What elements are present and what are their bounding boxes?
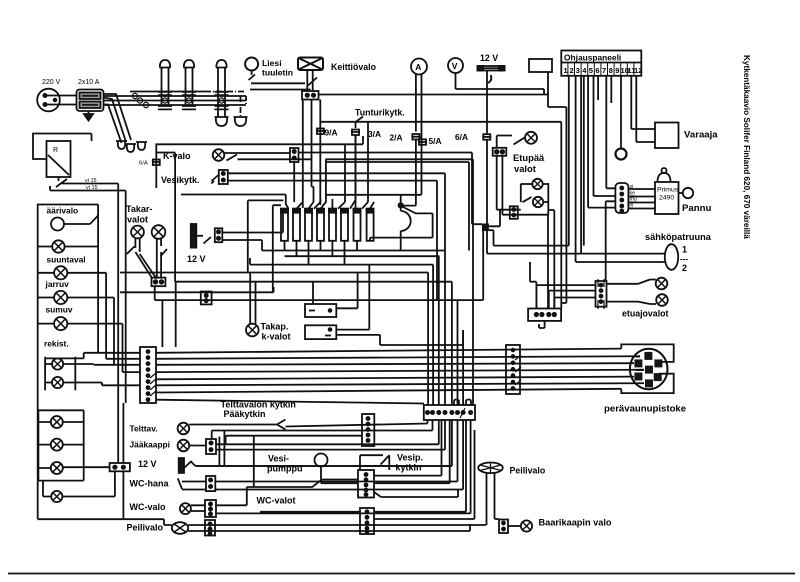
connector strip etuajovalot vertical [596,279,607,309]
wire mu from etuajovalot strip [606,201,616,281]
switch wc-hana [178,478,182,489]
connector strip bottom hub [424,405,475,420]
wire takar block down [154,286,156,300]
label R [53,147,58,154]
label WC-valot [257,496,296,506]
heater element ellipse [665,244,678,270]
lamp K-valo [213,149,225,161]
lamp takar A [131,226,144,239]
switch battery [204,237,212,244]
label WC-hana [130,479,170,489]
label Takar-valot [126,204,152,225]
mains cable bus horizontal [104,92,246,106]
svg-text:9: 9 [615,66,619,75]
connector bottom strip [360,508,374,534]
wire etupaa connector down2 [501,156,503,215]
wire fuse2 stem [296,241,298,256]
wire panel w10 to ring terminal [620,76,622,149]
wire panel w12 to Varaaja [636,76,655,142]
bus b7 [156,389,621,393]
connector jaakaappi 2pin [206,439,216,454]
wire sahko 1 from 12V line [487,140,665,254]
label 2x10 A [78,79,100,86]
label 6/A [455,132,468,142]
svg-text:---: --- [680,255,688,264]
wire fan feeds into fuse tops [297,122,422,209]
switch on K-valo wire [227,155,238,161]
connector baarikaappi [499,520,508,534]
wire panel w5 vi [588,76,615,208]
fuse 6A on 12V wire [482,134,491,140]
wire Vesikytk lower right [228,181,437,300]
label Telttav [130,424,158,434]
label 12 V top [480,53,498,63]
wire takar A stems [135,239,139,252]
label Varaaja [684,130,718,141]
wheel peilivalo symbol [478,463,503,474]
wire hub pin1 down to telttav [286,420,428,427]
wire hub verticals above [428,251,463,406]
wire wc left stub [43,481,115,497]
label rekist [44,339,69,349]
bus b1 [156,349,621,353]
wire rail right x98 [97,205,99,353]
trailer socket circle [630,349,668,390]
connector strip etuajovalot horizontal [528,309,561,321]
connector battery 2pin [215,228,223,242]
label 3/A [368,129,381,139]
wire vi15 upper to harness [62,183,118,185]
svg-text:Etupää: Etupää [513,152,545,163]
wire bottom strip row2 [374,430,475,519]
svg-text:2: 2 [570,66,574,75]
svg-text:Keittiövalo: Keittiövalo [331,62,377,72]
connector etupaa 2pin [493,148,507,156]
lamp suuntaval [52,240,64,252]
switch etupaa top [514,137,526,144]
svg-text:jarruv: jarruv [45,279,70,289]
svg-text:V: V [452,61,458,71]
label 5/A [429,136,442,146]
label Takap k-valot [261,322,291,342]
labels si ke mu vi [630,184,637,209]
bus b8 [156,400,424,404]
label Liesi tuuletin [262,58,293,78]
switch paakytkin [189,420,285,430]
relay R box [47,141,71,177]
connector K-valo 2pin [290,148,299,162]
wire jarruv stubs [38,273,106,359]
svg-text:pumppu: pumppu [267,464,303,474]
wire rail to peilivalo [38,481,124,520]
wire relay2 right top [336,265,369,330]
wire mid strip diag down [374,490,458,498]
battery 12V bar symbol [478,66,505,71]
lamp takar B [152,225,166,239]
svg-text:Vesikytk.: Vesikytk. [161,175,200,185]
terminal numbers 1-12 [568,63,634,75]
lamp 12v left [51,462,63,474]
trailer socket plate [621,344,673,393]
wire ammeter stems [416,74,422,195]
connector vesip mid strip [358,470,374,498]
wire voltmeter stem [456,73,545,95]
thermostat coil symbol [401,208,411,251]
wire fuse4 stem [320,241,322,251]
wire K-valo connector right [299,153,482,225]
label Vesi-pumppu [267,454,303,474]
wire to etuajovalot lamp2 [607,302,657,304]
wire 12v left stub to block [38,466,109,469]
svg-text:tuuletin: tuuletin [262,68,293,78]
bus y272 [120,272,428,274]
lamp etuajovalot 2 [656,294,668,306]
wire hub pin5 12v row [196,420,452,466]
svg-text:Pannu: Pannu [682,203,711,214]
wire etuajo feed 2 [549,291,596,309]
wire panel w2 [576,76,665,262]
svg-text:kytkin: kytkin [396,463,422,473]
ring terminal [616,149,627,160]
wire panel w4 mu [583,76,585,246]
lamp holder sockets x3 [116,141,147,152]
wire hub pin3 jaakaappi block [216,420,439,444]
fuse F220 block [77,90,104,112]
trailer socket pins [634,352,662,388]
box lamp group lower left [38,410,83,480]
wire junction up [400,195,402,203]
wire jaakaappi block top up [211,431,213,440]
switch takar A [127,247,135,255]
wire mid strip right r1 [374,420,442,476]
svg-text:Pääkytkin: Pääkytkin [224,409,266,419]
connector block left 2pin [110,463,130,471]
wire 3A down [355,135,357,208]
svg-text:etuajovalot: etuajovalot [622,309,669,319]
wire box feed left vertical [248,200,284,272]
battery 12V mid bar [191,224,197,248]
lamp telttav left [51,416,63,428]
label vi 15 upper [85,178,97,184]
wire wc-valo to block [191,505,205,511]
border bottom line [8,573,795,575]
wire etupaa top lamp [497,136,512,149]
svg-text:2x10 A: 2x10 A [78,79,100,86]
etupaa lower lamps assembly [502,183,548,215]
label Pannu [682,203,711,214]
label sahkopatruuna [645,232,712,242]
bus y250 [222,240,445,251]
svg-text:2: 2 [682,263,687,273]
svg-text:12: 12 [634,66,642,75]
svg-text:Peilivalo: Peilivalo [510,466,546,476]
wire fuse6 stem [344,241,346,265]
wire stems below block X1 [303,100,312,209]
label A [415,62,421,72]
wire peilivalo row second [188,524,470,531]
bus y300 [155,299,484,301]
label 12 V mid [187,254,206,264]
switch Vesikytk [211,175,219,184]
label sumuv [46,305,73,315]
socket dome S4 inverted [234,117,248,126]
switch vesip kytkin [360,455,389,470]
wire panel w6 ke [594,76,616,196]
svg-text:3: 3 [576,66,580,75]
svg-text:Primus: Primus [657,187,679,194]
label 12 V bottom [138,459,157,469]
svg-text:Kytkentäkaavio Solifer Finland: Kytkentäkaavio Solifer Finland 620, 670 … [742,55,751,239]
box K-valo left edge [156,136,363,188]
wire hub pin6 wc-hana [215,420,457,482]
lamp rekist top [54,317,67,330]
svg-text:3/A: 3/A [368,129,381,139]
wire hub pin4 jaakaappi low [216,420,445,450]
wire aarivalo rail down [37,220,39,480]
connector block mid [201,292,212,305]
lamp baarikaapin valo [521,520,532,531]
label Primus 2490 [657,187,679,202]
wire ladder links to strip [102,359,140,386]
wire 12v row [196,431,452,467]
svg-text:Baarikaapin valo: Baarikaapin valo [539,518,612,528]
bus y256 [285,255,440,257]
lamp jarruv [54,266,67,279]
connector takar block [152,278,166,287]
svg-text:2/A: 2/A [390,133,403,143]
wire hub hook n2 [466,400,471,406]
fuse 3A [351,130,360,136]
lamp rekist pair 2 [52,377,63,388]
wire etupaa feed down x548 [547,215,549,309]
wire panel w8 si [606,76,615,189]
terminal block X1 [302,91,319,100]
wire aarivalo right [64,216,98,225]
svg-text:6: 6 [595,66,599,75]
wire K-valo to connector [224,152,290,154]
ammeter U-A [411,59,427,75]
wire K-valo lower [238,159,474,405]
box rekist pair [45,357,75,391]
wire etupaa feed to junction b [489,230,494,245]
connector Vesikytk 2pin [219,170,228,184]
socket dome S3 inverted [215,117,229,126]
label etuajovalot [622,309,669,319]
wire panel w3 [580,76,582,254]
fuse 6A on left edge [152,160,161,166]
wire wheel stem [487,473,500,522]
svg-text:A: A [415,62,421,72]
fuse bank 8 fuses [281,209,374,241]
svg-text:7: 7 [602,66,606,75]
connector wc-valo [205,500,216,517]
wire panel w11 to Varaaja [631,76,655,129]
svg-text:Peilivalo: Peilivalo [127,523,164,533]
bus b4 [156,370,644,372]
label Baarikaapin valo [539,518,612,528]
wire box edge vertical x320 [319,100,321,206]
wire panel feeds down to etuajo [561,107,566,309]
svg-text:6/A: 6/A [455,132,468,142]
battery 12V bottom bar [179,458,196,473]
wire box feed left vertical 2 [273,205,281,292]
wire jaakaappi to block [189,445,206,447]
wire suuntaval stubs [38,246,98,248]
wire takap lamp stems [250,273,255,324]
wire Keittiovalo stems [307,70,312,91]
svg-text:Takar-: Takar- [126,204,152,214]
svg-text:Telttav.: Telttav. [130,424,158,434]
svg-text:220 V: 220 V [42,79,61,86]
label Etupaa valot [513,152,545,174]
box Varaaja [655,123,679,149]
label Vesikytk [161,175,200,185]
label Peilivalo bottom left [127,523,164,533]
lamp Takap k-valot [246,324,259,337]
svg-text:valot: valot [514,163,536,174]
wire peilivalo row long [188,524,486,526]
wire long vertical vi15a [117,184,119,464]
ground arrow [84,111,93,121]
lamp jaakaappi [178,440,190,452]
wire 12V stem [486,71,488,135]
wire ammeter left stem to junction [402,140,416,206]
wire wc-hana lower [215,420,463,490]
switch on Keittiovalo stem [308,78,317,86]
pump motor circle [315,454,328,467]
connector small below etupaa [510,206,518,219]
lamp etupaa lower1 [532,179,542,189]
label 220 V [42,79,61,86]
svg-text:12 V: 12 V [187,254,206,264]
lamp wc left [51,491,62,502]
wire bundle diagonal to lamp holders [104,94,132,143]
wire takar B stems [157,239,161,279]
svg-text:R: R [53,147,58,154]
pole tower T2 [182,60,196,109]
wire junction down to bus300 [482,231,484,300]
svg-text:sähköpatruuna: sähköpatruuna [645,232,712,242]
label aarivalo [47,206,79,216]
svg-text:12 V: 12 V [480,53,498,63]
label Ohjauspaneeli [564,53,621,63]
wire relay2 right bottom [336,335,380,345]
node junction dot [399,203,403,207]
svg-text:6/A: 6/A [139,161,148,167]
svg-text:Ohjauspaneeli: Ohjauspaneeli [564,53,621,63]
switch Tunturikytk [356,117,364,129]
wire box left edge x175 [156,153,175,282]
label Peilivalo right [510,466,546,476]
wire 12V aux battery feed [222,208,283,233]
wire vi15 lower to harness [50,186,126,191]
wire from K-valo connector down [293,162,295,202]
relay R enclosure [33,134,92,160]
boiler Pannu Primus 2490 [655,168,693,214]
wire junction diagonal [370,207,433,241]
svg-text:Jääkaappi: Jääkaappi [130,440,171,450]
wire rekist stubs [38,324,123,373]
wire fuse7 stem [356,241,358,251]
label WC-valo [130,502,167,512]
label 6/A small [139,161,148,167]
wire rail steps to strip [84,353,140,365]
connector strip mid vertical [506,345,521,394]
junction box black splice [482,224,489,232]
wire strip feeds from above [162,282,175,347]
svg-text:8: 8 [609,66,613,75]
svg-text:Telttavalon kytkin: Telttavalon kytkin [221,400,296,410]
svg-text:Varaaja: Varaaja [684,130,718,141]
svg-text:suuntaval: suuntaval [47,255,86,265]
wire relay1 right [336,273,357,309]
svg-text:rekist.: rekist. [44,339,69,349]
label peravaunupistoke [604,404,686,415]
wire relay1 top [312,282,314,304]
label Keittiovalo [331,62,377,72]
wire etupaa feed down x554 [548,210,554,309]
svg-text:Vesip.: Vesip. [397,453,423,463]
label V [452,61,458,71]
label Telttavalon kytkin [221,400,296,420]
wire y519 to peilivalo lamp [123,519,171,525]
wire dash-dot drop to socket 4 [240,96,242,116]
wire panel w1 [494,76,569,246]
relay box1 [305,304,336,317]
side text Kytkentakaavio [742,55,751,239]
relay box2 [305,325,336,339]
connector strip si-ke-mu-vi [615,183,628,213]
svg-text:sumuv: sumuv [46,305,73,315]
wire etuajo feed 3 [554,298,595,309]
voltmeter U-V [448,58,463,73]
wire fuse1 stem [284,241,286,251]
fuse 5A [418,139,427,145]
wire battery right [196,235,203,237]
label vi 15 lower [86,185,98,191]
wire relay2 link [380,330,463,345]
lamp Etupaa top [525,132,537,144]
svg-text:Liesi: Liesi [262,58,282,68]
lamp etuajovalot 1 [656,278,668,290]
wire hub pin8 wc rows [216,420,471,513]
junction circles top bus [132,93,224,107]
bus main y122 [320,121,561,123]
lamp peilivalo oval [172,522,188,534]
label Tunturikytk [355,108,405,118]
fuse 9A [316,129,325,135]
lamp sumuv [54,291,67,304]
lamp Keittiovalo box-X symbol [298,58,323,71]
svg-text:WC-valot: WC-valot [257,496,296,506]
label suuntaval [47,255,86,265]
box instrument top right [529,59,552,72]
wire wc-hana rows [182,482,206,490]
lamp aarivalo plain circle [51,218,64,231]
wire hub hook n1 [454,400,459,406]
wire wheel to bus [486,522,488,525]
wires rekist pair [45,353,102,386]
label jarruv [45,279,70,289]
wire long vertical vi15b [125,191,127,404]
wire vert 253 [254,436,362,487]
connector strip main left [140,347,156,403]
wire etuajo feed 1 [536,285,595,308]
wire kvalo box bottom to fuse bank [181,195,289,209]
svg-text:valot: valot [127,215,148,225]
wire panel w9 [610,76,612,103]
svg-text:12 V: 12 V [138,459,157,469]
